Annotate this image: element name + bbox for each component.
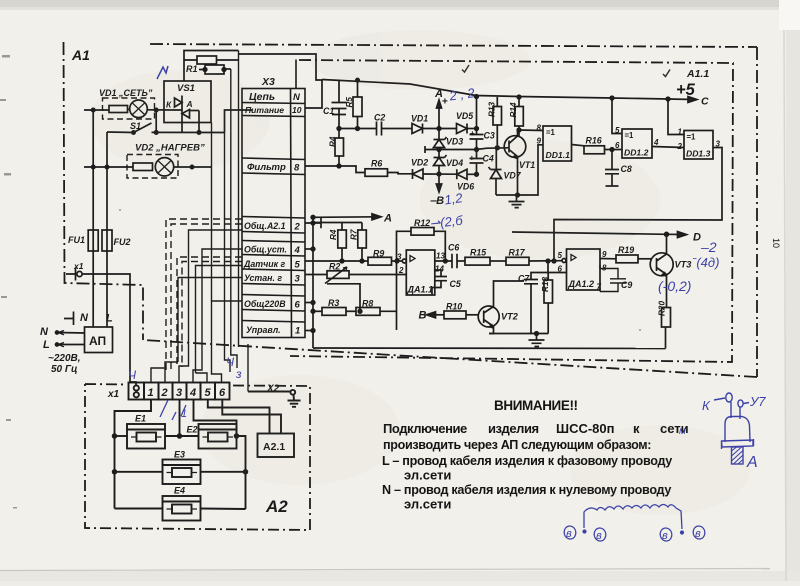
- svg-text:8: 8: [537, 124, 542, 133]
- wire rail drop to R5: [357, 81, 359, 98]
- wire X1 upper to A2 strip: [82, 274, 136, 385]
- cable shield dashed box 1: [166, 219, 242, 371]
- wire ground bus VT2 area: [489, 333, 548, 335]
- wire down to X2: [247, 344, 249, 392]
- resistor R13 vertical: [493, 107, 502, 126]
- diode VD5: [457, 124, 468, 134]
- capacitor C6: [452, 254, 457, 268]
- svg-text:С1: С1: [323, 106, 334, 116]
- wire fuse column FU2: [106, 132, 108, 327]
- cable shield dashed box 3: [177, 257, 242, 367]
- svg-text:Е1: Е1: [135, 414, 146, 424]
- svg-text:VD2: VD2: [411, 158, 428, 168]
- svg-text:К: К: [702, 398, 711, 413]
- opamp DA1.1 input circle pin3: [402, 259, 406, 263]
- svg-text:50 Гц: 50 Гц: [51, 364, 78, 375]
- wire S1 row long: [107, 131, 225, 134]
- svg-text:х1: х1: [107, 389, 120, 400]
- wire row3 устан to R2: [305, 274, 327, 276]
- svg-text:D: D: [693, 232, 701, 244]
- svg-text:4: 4: [189, 387, 196, 399]
- svg-text:14: 14: [435, 265, 444, 274]
- wire VT2 collector up: [494, 281, 525, 307]
- wire VT3 collector up to D line: [666, 234, 668, 254]
- wire mid to C3C4 node: [439, 149, 477, 151]
- wire DD1.2 out to DD1.3 pin2: [653, 147, 685, 148]
- capacitor C7: [524, 280, 538, 334]
- wire row A left segment: [339, 128, 376, 130]
- svg-text:N: N: [293, 92, 301, 103]
- diode VD2: [413, 169, 424, 179]
- wire VT1 emitter down: [517, 157, 519, 196]
- svg-text:Общ.А2.1: Общ.А2.1: [244, 221, 286, 231]
- checkmark near A1.1: [663, 70, 670, 77]
- wire row2 stub with bar: [305, 218, 321, 228]
- wire supply rail top: [322, 80, 668, 100]
- svg-text:Е2: Е2: [187, 425, 198, 435]
- wire R2 to pin2: [349, 274, 406, 276]
- svg-text:ШСС-80п: ШСС-80п: [556, 421, 614, 436]
- capacitor C4 polarized: [470, 150, 484, 175]
- resistor R7 vertical: [358, 230, 367, 248]
- wire VD3 stubs: [438, 129, 440, 158]
- svg-text:3: 3: [397, 253, 402, 262]
- svg-text:С7: С7: [518, 274, 530, 284]
- wire X2: [248, 391, 291, 393]
- wire E2 right to right rail: [237, 436, 246, 509]
- cable shield dashed box 2: [171, 224, 242, 371]
- wire pin5 down to A2.1: [208, 400, 270, 434]
- svg-text:С3: С3: [484, 131, 495, 141]
- svg-text:VT2: VT2: [501, 312, 519, 322]
- wire into VD2: [84, 166, 133, 168]
- svg-text:Устан. г: Устан. г: [244, 273, 282, 283]
- svg-text:R6: R6: [371, 159, 382, 169]
- plus arrow A up: [438, 103, 440, 129]
- blue sketch hatched stud: [732, 447, 744, 464]
- svg-text:=1: =1: [687, 133, 697, 142]
- wire VD1 to center: [423, 128, 457, 130]
- svg-text:R3: R3: [328, 298, 339, 308]
- heater E2 box: [199, 424, 237, 449]
- wire R1 right lead: [217, 59, 239, 61]
- wire staircase pin5: [196, 373, 208, 383]
- wire E4 left: [115, 508, 163, 510]
- svg-text:ˉ(4д): ˉ(4д): [692, 255, 719, 270]
- svg-text:Датчик г: Датчик г: [243, 259, 285, 269]
- triac VS1 symbol: [174, 98, 190, 118]
- svg-text:Управл.: Управл.: [246, 325, 281, 335]
- lamp VD1 circle: [130, 100, 148, 118]
- svg-text:1: 1: [148, 387, 154, 399]
- zener VD4: [434, 155, 447, 166]
- transistor VT3: [650, 253, 673, 276]
- wire VD6 to C4 node: [467, 173, 477, 175]
- svg-text:DD1.3: DD1.3: [686, 149, 711, 159]
- svg-text:эл.сети: эл.сети: [404, 497, 451, 512]
- paper speckles: [0, 44, 641, 509]
- fuse FU1: [88, 230, 98, 251]
- wire DD1.3 out feedback long: [554, 148, 722, 262]
- svg-text:С5: С5: [450, 279, 461, 289]
- transistor VT1: [504, 136, 526, 158]
- wire row2 extension to R4 R7 tops: [313, 223, 362, 231]
- svg-text:Ч: Ч: [128, 368, 137, 382]
- svg-text:Х3: Х3: [261, 76, 275, 88]
- wire mid bar left: [425, 146, 439, 153]
- svg-text:6: 6: [615, 141, 620, 150]
- wire R2 wiper bracket: [327, 284, 360, 312]
- svg-text:VD3: VD3: [446, 137, 463, 147]
- capacitor C2: [377, 122, 382, 136]
- wire VS1 anode down: [198, 111, 200, 133]
- svg-text:изделия: изделия: [488, 421, 539, 436]
- svg-text:VT3: VT3: [675, 260, 692, 270]
- wire L arrow into AП: [58, 344, 85, 346]
- capacitor C3 polarized: [470, 97, 484, 150]
- wire stub above table right edge: [295, 60, 297, 90]
- svg-text:VD1: VD1: [411, 114, 428, 124]
- wire DD1.3 pin1 from rail end: [668, 99, 684, 135]
- resistor R2 variable: [327, 271, 349, 279]
- svg-text:+5: +5: [676, 81, 696, 99]
- capacitor C9 on pin8: [600, 265, 626, 292]
- svg-text:6: 6: [295, 300, 301, 311]
- table column divider: [291, 89, 292, 338]
- wire R4 bottom: [338, 156, 340, 166]
- svg-text:С6: С6: [448, 243, 459, 253]
- wire питание stub right to rail: [305, 80, 322, 108]
- fuse FU2: [102, 230, 112, 251]
- svg-text:10: 10: [771, 238, 781, 248]
- heater E1 box: [127, 424, 165, 449]
- svg-text:эл.сети: эл.сети: [404, 468, 451, 483]
- frame A1 outer dash-dot border top: [150, 44, 757, 47]
- wire lamp VD2 right: [174, 166, 212, 168]
- svg-text:R13: R13: [488, 102, 497, 117]
- connector table X3 outline: [242, 89, 305, 338]
- svg-text:N: N: [40, 326, 49, 338]
- wire B arrow and R10: [429, 314, 444, 316]
- blue wave end dots: [583, 530, 586, 533]
- wire top bus to R13 R14: [475, 95, 479, 99]
- svg-text:R4: R4: [329, 229, 338, 240]
- svg-text:R18: R18: [541, 277, 550, 292]
- wire pin4 down to E2 right: [194, 400, 237, 434]
- svg-text:х1: х1: [73, 261, 84, 271]
- capacitor C5 on pin14: [432, 270, 447, 295]
- resistor R10: [444, 311, 466, 319]
- wire фильтр row right: [305, 166, 365, 173]
- wire from R1 area down x231: [231, 69, 237, 368]
- svg-text:В: В: [419, 310, 427, 322]
- resistor R3: [322, 308, 346, 316]
- resistor R17: [506, 257, 529, 265]
- svg-text:4: 4: [294, 245, 301, 256]
- wire pin1 down to left rail: [115, 400, 152, 509]
- wire N arrow into AП: [58, 332, 85, 335]
- wire staircase pin2: [165, 362, 178, 383]
- ground symbol mid: [529, 334, 545, 347]
- wire R17 to DA1.2 pin5: [529, 260, 562, 262]
- svg-text:5: 5: [295, 260, 301, 271]
- frame A1 outer dash-dot border bottom: [143, 340, 757, 377]
- wire DA1.2 out pin9 to R19: [600, 258, 616, 260]
- svg-text:R16: R16: [586, 136, 602, 146]
- zener VD3: [434, 137, 447, 148]
- wire rail drop to C1: [338, 81, 340, 103]
- wire VT1 collector up: [517, 130, 519, 136]
- svg-text:10: 10: [292, 105, 302, 115]
- svg-text:7: 7: [597, 283, 602, 292]
- lamp VD2 dashed box: [127, 155, 178, 179]
- ground below VT1: [509, 195, 525, 208]
- svg-text:Е4: Е4: [174, 486, 185, 496]
- wire lamp branch down to S1 row: [155, 110, 157, 132]
- wire R19 to VT3 base: [638, 258, 652, 260]
- wire from VS1 box corner down x212: [211, 123, 213, 302]
- strip pin circles: [134, 385, 139, 390]
- svg-text:2: 2: [161, 387, 168, 399]
- svg-text:8: 8: [294, 163, 300, 174]
- wire lamp VD1 to VS1 box: [147, 109, 174, 111]
- node bus vertical x313: [312, 217, 314, 348]
- blue sketch label U7: [744, 403, 750, 404]
- gate DD1.2 box: [622, 129, 652, 158]
- opamp DA1.1 box: [406, 250, 435, 295]
- wire from VS1 area down x225: [225, 133, 231, 373]
- wire row B middle: [423, 173, 457, 175]
- gate DD1.3 box: [684, 131, 713, 160]
- resistor R19: [616, 255, 638, 263]
- wire row4 stub: [305, 248, 313, 250]
- svg-text:А1: А1: [71, 47, 90, 63]
- frame A1 outer dash-dot border left with notch: [64, 42, 144, 340]
- opamp DA1.2 box: [567, 249, 601, 290]
- heater E3 box: [163, 460, 201, 485]
- wire R5 bottom to row: [357, 117, 359, 129]
- svg-text:8: 8: [602, 264, 607, 273]
- svg-text:+: +: [442, 97, 448, 108]
- wire rail arrow C: [668, 98, 694, 101]
- wire C1/R4 vertical: [338, 129, 340, 139]
- wire resistor to lamp: [128, 109, 131, 111]
- svg-text:1: 1: [295, 326, 300, 337]
- wire table row5 to pin5: [196, 266, 243, 374]
- blue sketch K pin line: [714, 398, 725, 400]
- svg-text:N: N: [80, 312, 89, 324]
- wire from R1 loop down x239: [238, 51, 240, 348]
- blue sketch thyristor dome: [725, 402, 750, 442]
- svg-text:2: 2: [677, 142, 683, 151]
- wire row A middle: [382, 128, 413, 130]
- wire E3 right: [201, 471, 246, 473]
- wire VT3 emitter to R20: [666, 275, 667, 349]
- svg-text:L: L: [106, 313, 113, 325]
- wire R14 node to DD1.1 pin8: [519, 129, 543, 132]
- svg-text:3: 3: [176, 387, 182, 399]
- wire fuse column FU1: [92, 110, 94, 327]
- svg-text:6: 6: [558, 265, 563, 274]
- svg-text:С: С: [701, 96, 709, 108]
- minus arrow B down: [438, 174, 440, 185]
- svg-text:Общ220В: Общ220В: [244, 299, 286, 309]
- wire R16 to DD1.2 pin6: [605, 149, 623, 151]
- frame A1 outer dash-dot border right: [756, 47, 758, 377]
- capacitor C1: [332, 103, 347, 129]
- wire row1 управл right: [305, 330, 313, 332]
- svg-text:С2: С2: [374, 113, 385, 123]
- resistor R18 vertical: [544, 280, 553, 303]
- svg-text:R8: R8: [362, 299, 373, 309]
- svg-text:ВНИМАНИЕ!!: ВНИМАНИЕ!!: [494, 398, 578, 413]
- svg-text:Ч: Ч: [226, 355, 235, 369]
- wire DD1.1 pin9 down and left to emitter bus: [496, 145, 543, 195]
- frame A1.1 inner dash-dot border: [290, 60, 733, 362]
- svg-text:4: 4: [653, 138, 659, 147]
- wire D line: [512, 232, 683, 235]
- connector X1 upper terminal: [66, 268, 76, 281]
- cable shield dashed box 4: [182, 262, 242, 368]
- checkmark mid top: [462, 65, 469, 72]
- svg-text:Е3: Е3: [174, 450, 185, 460]
- wire table row4 to pin4: [193, 249, 242, 383]
- wire arrow A out: [313, 216, 378, 219]
- wire R10 to VT2 base: [466, 314, 478, 316]
- wire C6 to R15: [457, 260, 465, 262]
- wire mains into VD1: [84, 109, 109, 111]
- svg-text:С9: С9: [621, 280, 632, 290]
- wire R1 left lead and loop: [184, 51, 239, 61]
- wire R3 R8 row: [313, 310, 322, 312]
- wire table row2 to pin2: [179, 230, 242, 383]
- table row lines: [242, 103, 305, 104]
- wire pin3 down to E1E2 node: [179, 400, 181, 437]
- gate DD1.1 box: [543, 126, 572, 161]
- svg-text:‒2: ‒2: [700, 239, 717, 255]
- wire VT2 emitter: [489, 327, 494, 334]
- svg-text:FU1: FU1: [68, 235, 85, 245]
- wire staircase pin1: [151, 368, 166, 383]
- svg-text:R10: R10: [446, 302, 462, 312]
- wire DA1.1 output: [435, 260, 452, 262]
- wire VT1 base from mid node: [477, 148, 510, 150]
- connector strip X1 cells: [129, 383, 145, 400]
- resistor R1: [197, 56, 217, 64]
- svg-text:(-0,2): (-0,2): [658, 278, 691, 294]
- resistor in VD2 lamp box: [133, 163, 153, 171]
- diode VD6: [457, 169, 467, 179]
- capacitor C8: [605, 150, 619, 187]
- heater E4 box: [163, 496, 201, 521]
- frame A2 dash-dot border: [85, 384, 310, 530]
- svg-text:=1: =1: [546, 128, 556, 137]
- svg-text:R19: R19: [618, 245, 634, 255]
- wire E3 left: [115, 471, 163, 473]
- svg-text:FU2: FU2: [114, 237, 131, 247]
- svg-text:~220В,: ~220В,: [48, 353, 81, 364]
- wire E1 left to rail: [115, 435, 128, 437]
- svg-text:1: 1: [181, 408, 187, 420]
- svg-text:VD5: VD5: [456, 111, 473, 121]
- svg-text:5: 5: [615, 126, 620, 135]
- wire varistor to down wire: [224, 68, 231, 70]
- resistor R8: [356, 308, 380, 316]
- resistor R6: [365, 169, 388, 177]
- svg-text:5: 5: [205, 387, 212, 399]
- wire E1 to E2: [165, 435, 199, 437]
- wire varistor left lead: [184, 60, 205, 81]
- unit A2.1 box: [258, 434, 295, 458]
- wire питание up from S1 row: [225, 110, 253, 133]
- triac VS1 box: [164, 81, 211, 123]
- svg-text:А2: А2: [265, 497, 288, 516]
- svg-text:А: А: [383, 213, 392, 225]
- breaker AП box: [85, 327, 113, 353]
- resistor R9: [368, 257, 392, 265]
- resistor R4b vertical: [338, 230, 347, 248]
- wire R9 to pin3: [392, 260, 403, 262]
- svg-text:+: +: [470, 129, 475, 138]
- lamp VD1 dashed box: [103, 98, 155, 119]
- resistor R5 vertical: [353, 97, 362, 117]
- ground X2: [288, 395, 301, 407]
- svg-text:Фильтр: Фильтр: [247, 162, 286, 173]
- svg-text:R7: R7: [350, 229, 359, 240]
- blue check N top left: [157, 66, 168, 79]
- resistor R14 vertical: [515, 107, 524, 127]
- wire VD5 to C3 node: [467, 128, 477, 130]
- svg-text:R4: R4: [329, 136, 338, 147]
- svg-text:А1.1: А1.1: [686, 68, 709, 80]
- svg-text:DD1.2: DD1.2: [624, 148, 649, 158]
- svg-text:L: L: [43, 339, 50, 351]
- zener VD7: [489, 167, 502, 179]
- svg-text:ДА1.2: ДА1.2: [568, 279, 595, 289]
- svg-text:Общ.уст.: Общ.уст.: [244, 245, 287, 255]
- blue wavy line: [584, 505, 682, 530]
- svg-text:з: з: [235, 367, 242, 381]
- wire R15 to R17: [490, 260, 506, 262]
- resistor R20 vertical: [662, 308, 671, 328]
- resistor in VD1 lamp box: [109, 106, 128, 113]
- svg-text:АП: АП: [89, 334, 106, 348]
- wire row5 датчик to R9: [305, 260, 368, 262]
- svg-text:3: 3: [716, 140, 721, 149]
- svg-text:2: 2: [398, 266, 404, 275]
- wire E4 right: [201, 508, 246, 511]
- svg-text:R9: R9: [373, 249, 384, 259]
- varistor box under R1: [205, 65, 224, 74]
- svg-text:=1: =1: [625, 131, 635, 140]
- svg-text:2: 2: [294, 222, 301, 233]
- svg-text:R14: R14: [509, 102, 518, 117]
- wire R6 to VD2d: [388, 173, 413, 174]
- blue sketch flange: [722, 439, 754, 449]
- wire row6 общ220В right stub: [305, 302, 313, 304]
- diode VD1: [412, 124, 423, 134]
- blue sketch pin circles: [726, 393, 732, 402]
- wire top feed to rail: [239, 54, 323, 80]
- wire table row6 down: [212, 301, 243, 383]
- lamp VD2 circle: [155, 158, 173, 176]
- resistor R4 vertical: [335, 138, 344, 156]
- svg-text:R5: R5: [345, 97, 354, 108]
- resistor R15: [465, 257, 490, 265]
- wire VS1 gate down: [181, 121, 183, 132]
- wire DD1.1 out to R16: [572, 145, 585, 146]
- resistor R16: [584, 146, 605, 154]
